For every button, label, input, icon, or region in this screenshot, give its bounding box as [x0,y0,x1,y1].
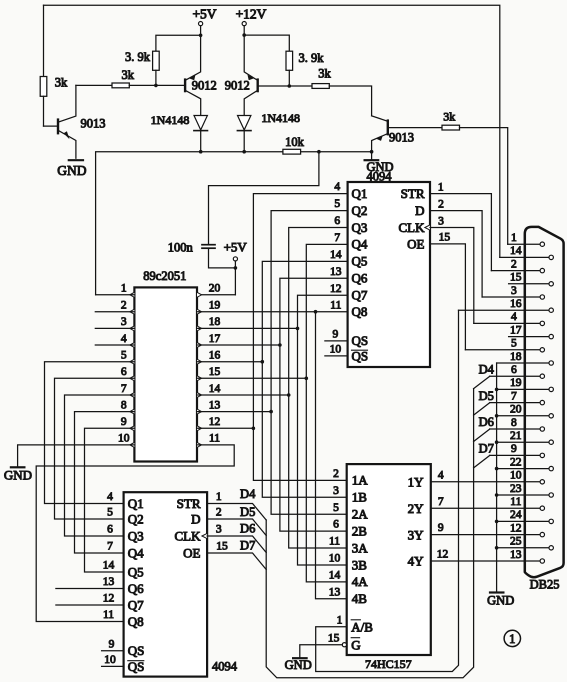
svg-text:OE: OE [407,236,424,251]
wire R5 to transistor Q4 base [329,86,371,116]
connector J1 pin 25 row [497,547,549,549]
svg-text:12: 12 [437,549,449,561]
wire U1 pin10 to ground [18,445,135,467]
wire U2 Q3 via channel to U4 3A [289,228,348,549]
svg-text:14: 14 [329,570,341,582]
svg-text:6: 6 [334,215,340,227]
svg-text:Q7: Q7 [352,288,368,303]
connector J1 pin 23 row [497,494,549,496]
wire R4 to node B [288,70,290,86]
svg-text:3k: 3k [121,68,134,82]
schematic figure number 1 (circled) [504,630,520,646]
svg-text:STR: STR [401,186,425,201]
U3 QS stub pin 9 [102,650,124,652]
bus tap D7 to DB25 pin 9 [474,455,490,468]
wire Q3 base to node B [258,85,290,87]
connector J1 pin 20 row [497,415,549,417]
svg-text:12: 12 [103,593,115,605]
ground (Q1 emitter) [69,159,83,161]
svg-text:17: 17 [209,333,221,345]
wire U1 pin18 to node (Q7 column) [197,327,298,329]
svg-text:9: 9 [438,522,444,534]
connector J1 DB25 shell [525,227,564,577]
U1 pin 4 (left) [130,343,135,348]
svg-text:4: 4 [334,181,340,193]
bus tap D4 to DB25 pin 6 [474,376,490,388]
svg-text:10: 10 [329,553,341,565]
transistor Q4 9013 (NPN, right) [372,116,388,122]
wire Q1 collector row to resistor 3k base [76,84,112,86]
svg-text:14: 14 [103,560,115,572]
wire U1 pin3 stub (open) [95,327,134,329]
U1 pin 1 (left) [130,292,135,297]
svg-text:14: 14 [510,245,522,257]
connector J1 pin 16 row [459,309,550,311]
svg-text:16: 16 [209,350,221,362]
resistor R4 3.9k (vertical) [286,51,293,70]
connector J1 pin 1 row [508,243,540,245]
svg-text:2Y: 2Y [408,501,425,516]
svg-text:10: 10 [104,654,116,666]
U1 pin 16 (right) [197,359,202,364]
svg-text:9: 9 [511,443,517,455]
svg-text:4B: 4B [352,591,368,606]
wire 10k-node down and left to capacitor [209,152,319,245]
svg-text:1: 1 [438,181,444,193]
svg-text:12: 12 [510,522,522,534]
svg-text:5: 5 [121,350,127,362]
svg-text:100n: 100n [168,241,194,255]
U1 pin 10 (left) [130,442,135,447]
connector J1 pin 24 row [497,520,549,522]
svg-text:Q2: Q2 [128,511,144,526]
wire reset bus (left section, to 89c2051 RST pin 1) [96,152,283,295]
svg-text:20: 20 [510,404,522,416]
svg-text:GND: GND [4,468,32,483]
svg-text:5: 5 [107,507,113,519]
svg-text:Q7: Q7 [128,597,144,612]
svg-text:4: 4 [511,311,517,323]
wire +5V rail to 3.9k branch [156,35,201,51]
svg-text:5: 5 [334,198,340,210]
svg-text:+5V: +5V [192,7,216,22]
svg-text:10: 10 [118,433,130,445]
capacitor C1 100n [202,244,215,246]
U2 QSbar stub pin 10 [325,355,348,357]
wire R6 to DB25 pin-1 column [460,128,508,245]
svg-text:+5V: +5V [224,239,248,254]
bus tap D5 to DB25 pin 7 [474,403,490,416]
svg-text:11: 11 [330,299,341,311]
wire U1 pin9 to U3 Q5 [85,428,135,572]
svg-text:9013: 9013 [81,116,106,130]
wire U1 pin12 to node (Q1 column) [197,427,253,429]
svg-text:3k: 3k [55,76,68,90]
svg-text:Q4: Q4 [352,237,368,252]
connector J1 pin 7 row [490,402,540,404]
svg-text:7: 7 [107,541,113,553]
diode D1 1N4148 [194,116,207,130]
op IC U4 74HC157 body [347,464,431,655]
svg-text:GND: GND [57,163,86,178]
svg-text:3A: 3A [352,540,369,555]
svg-text:GND: GND [285,658,312,672]
svg-text:2: 2 [333,468,339,480]
svg-text:13: 13 [209,399,221,411]
bus tap D6 to DB25 pin 8 [474,429,490,442]
svg-text:4Y: 4Y [408,554,425,569]
svg-text:20: 20 [209,283,221,295]
svg-text:6: 6 [511,364,517,376]
connector J1 pin 3 row [482,296,540,298]
wire U1 pin5 to U3 Q1 [45,362,135,504]
svg-text:3. 9k: 3. 9k [125,50,151,64]
svg-text:19: 19 [510,377,522,389]
wire U1 pin2 stub (open) [95,311,134,313]
connector J1 pin 8 row [490,428,540,430]
resistor R2 3k (horizontal, Q2 base) [112,83,129,88]
wire U2 Q8 via channel to U4 4B [316,312,348,599]
U1 pin 20 (right) [197,292,202,297]
svg-text:Q1: Q1 [352,186,368,201]
svg-text:1: 1 [121,283,127,295]
resistor R7 10k [283,149,301,154]
svg-text:9013: 9013 [389,131,414,145]
wire ground bus right section [301,151,372,153]
svg-text:15: 15 [510,272,522,284]
svg-text:Q5: Q5 [128,564,144,579]
svg-text:14: 14 [209,383,221,395]
svg-text:7: 7 [334,232,340,244]
svg-text:8: 8 [511,417,517,429]
connector J1 pin 2 row [491,270,540,272]
svg-text:Q8: Q8 [352,304,368,319]
U3 QSbar stub pin 10 [102,665,124,667]
svg-text:9: 9 [121,416,127,428]
svg-text:D5: D5 [479,389,494,403]
connector J1 pin 5 row [465,349,540,351]
U1 pin 9 (left) [130,426,135,431]
svg-text:13: 13 [330,266,342,278]
svg-text:9: 9 [333,329,339,341]
svg-text:GND: GND [487,593,514,607]
svg-text:24: 24 [510,509,522,521]
wire ground bus (DB25 pins 18-25) [496,363,498,592]
svg-text:15: 15 [439,232,451,244]
transistor Q1 9013 (NPN, left) [44,125,59,127]
svg-text:2B: 2B [352,523,368,538]
wire U2 Q4 via channel to U4 4A [306,244,347,582]
svg-text:Q1: Q1 [128,496,144,511]
svg-text:OE: OE [183,546,200,561]
connector J1 pin 15 row [509,283,549,285]
ground (U1 pin 10) [11,466,25,468]
wire U1 pin11 to U3 Q8 [36,445,234,622]
svg-text:9: 9 [109,638,115,650]
diode D2 1N4148 [238,116,251,130]
transistor Q2 9012 (PNP) [184,80,186,92]
wire U1 pin17 to node (Q6 column) [197,344,280,346]
svg-text:3: 3 [216,524,222,536]
svg-text:16: 16 [510,298,522,310]
resistor R5 3k (horizontal) [289,85,312,87]
svg-text:15: 15 [328,632,340,644]
svg-text:9012: 9012 [192,78,217,92]
svg-text:D4: D4 [479,362,495,376]
U1 pin 14 (right) [197,393,202,398]
U1 pin 15 (right) [197,376,202,381]
ground (bus right end, Q4 emitter) [365,159,379,161]
wire U1 pin4 stub (open) [95,344,134,346]
connector J1 pin 14 row [500,256,549,258]
connector J1 pin 4 row [474,322,540,324]
wire U1 pin1 RST from reset bus [96,294,135,296]
svg-text:6: 6 [333,519,339,531]
wire D1 cathode to reset bus [200,131,202,152]
node dot +5V rail split [199,34,203,38]
svg-text:22: 22 [510,456,522,468]
svg-text:QS: QS [352,333,369,348]
resistor R3 3.9k (vertical) [153,51,160,70]
connector J1 pin 21 row [497,441,549,443]
svg-text:+12V: +12V [236,7,267,22]
svg-text:15: 15 [216,541,228,553]
wire U1 pin6 to U3 Q2 [55,378,135,519]
svg-text:Q3: Q3 [352,220,368,235]
svg-text:25: 25 [510,536,522,548]
U1 pin 19 (right) [197,309,202,314]
ground (DB25 pin 25 group) [490,591,503,593]
transistor Q3 9012 (PNP, mirrored) [257,80,259,92]
svg-text:3k: 3k [443,110,455,124]
svg-text:5: 5 [511,338,517,350]
svg-text:STR: STR [177,496,201,511]
wire U1 pin13 to node (Q2 column) [197,411,271,413]
svg-text:CLK: CLK [175,529,202,544]
wire from R1 down to transistor Q1 base [43,96,45,126]
U1 pin 17 (right) [197,343,202,348]
svg-text:DB25: DB25 [530,577,560,591]
svg-text:D4: D4 [240,487,256,501]
wire +12V rail to 3.9k branch [244,35,289,51]
U2 QS stub pin 9 [325,340,348,342]
svg-text:3Y: 3Y [408,527,425,542]
op IC U1 89c2051 body [134,287,197,461]
svg-text:1: 1 [216,491,222,503]
svg-text:Q3: Q3 [128,528,144,543]
svg-text:4: 4 [121,333,127,345]
svg-text:D: D [191,512,200,527]
svg-text:1B: 1B [352,490,368,505]
svg-text:4: 4 [107,491,113,503]
svg-text:4: 4 [438,469,444,481]
node dot VCC [234,266,238,270]
U1 pin 7 (left) [130,393,135,398]
svg-text:4094: 4094 [367,170,393,184]
svg-text:Q2: Q2 [352,203,368,218]
U1 pin 12 (right) [197,426,202,431]
svg-text:21: 21 [510,430,522,442]
wire U2 Q5 via channel to U4 1B [262,261,347,497]
svg-text:1: 1 [337,615,343,627]
svg-text:4094: 4094 [212,660,238,674]
connector J1 pin 17 row [509,336,549,338]
svg-text:18: 18 [209,316,221,328]
wire U1 pin7 to U3 Q3 [65,395,135,536]
svg-text:10: 10 [510,470,522,482]
op IC U2 4094 (upper) body [348,182,430,367]
U1 pin 2 (left) [130,309,135,314]
resistor R1 3k (vertical, left edge) [40,77,47,97]
svg-text:3: 3 [333,485,339,497]
svg-text:2: 2 [511,258,517,270]
wire U2 Q6 via channel to U4 2B [280,278,348,531]
svg-text:11: 11 [103,609,114,621]
svg-text:12: 12 [209,416,221,428]
wire U2 Q1 via channel to U4 1A [253,194,347,481]
svg-text:89c2051: 89c2051 [143,269,186,283]
svg-text:2: 2 [121,300,127,312]
svg-text:1N4148: 1N4148 [261,111,300,125]
svg-text:CLK: CLK [399,220,426,235]
connector J1 pin 18 row [497,362,549,364]
svg-text:14: 14 [330,249,342,261]
svg-text:7: 7 [511,390,517,402]
svg-text:6: 6 [121,366,127,378]
svg-text:13: 13 [329,586,341,598]
svg-text:D7: D7 [240,539,255,553]
wire VCC to 89c2051 pin 20 [197,294,235,296]
svg-text:12: 12 [330,283,342,295]
svg-text:3: 3 [511,285,517,297]
svg-text:Q4: Q4 [128,545,144,560]
wire C1 bottom plate to +5V node [209,248,236,268]
svg-text:1N4148: 1N4148 [151,113,190,127]
svg-text:A/B: A/B [351,619,373,634]
wire D2 cathode to reset bus [243,131,245,152]
wire U1 pin14 to node (Q3 column) [197,394,289,396]
connector J1 pin 6 row [490,375,540,377]
ground (U4 G pin) [293,657,307,659]
wire U1 pin19 to node (Q8 column) [197,311,316,313]
svg-text:3B: 3B [352,557,368,572]
wire left vertical from top rail to resistor 3k [43,5,45,76]
svg-text:Q5: Q5 [352,254,368,269]
wire R3 to node A [155,70,157,85]
svg-text:8: 8 [121,399,127,411]
connector J1 pin 22 row [497,468,549,470]
svg-text:Q6: Q6 [352,271,368,286]
svg-text:1Y: 1Y [408,475,425,490]
bus D4-D7 main loop (left vertical, bottom run, right vertical) [266,389,473,678]
U3 Q6 stub (open) [56,588,124,590]
wire U1 pin16 to node (Q5 column) [197,361,262,363]
node B junction dot [288,84,292,88]
svg-text:Q8: Q8 [128,614,144,629]
wire U1 pin15 to node (Q4 column) [197,377,306,379]
node dot +12V rail split [242,33,246,37]
U1 pin 3 (left) [130,326,135,331]
junction dots on buses [199,150,203,154]
svg-text:13: 13 [103,576,115,588]
svg-text:11: 11 [329,536,340,548]
wire U2 Q7 via channel to U4 3B [298,295,348,565]
svg-text:3: 3 [121,316,127,328]
svg-text:D7: D7 [479,442,494,456]
wire U2 Q2 via channel to U4 2A [271,211,348,515]
svg-text:19: 19 [209,300,221,312]
svg-text:7: 7 [121,383,127,395]
svg-text:74HC157: 74HC157 [365,657,412,671]
svg-text:3. 9k: 3. 9k [299,51,325,65]
svg-text:4A: 4A [352,574,369,589]
svg-text:17: 17 [510,324,522,336]
svg-text:1A: 1A [352,473,369,488]
node A junction dot [154,84,158,88]
svg-text:23: 23 [510,483,522,495]
svg-text:5: 5 [333,502,339,514]
svg-text:QS: QS [128,643,145,658]
wire top rail from left 3k down-corner to DB25 pin-14 column [44,5,500,257]
wire U1 pin8 to U3 Q4 [75,412,135,553]
U3 Q7 stub (open) [56,604,124,606]
svg-text:G: G [351,637,360,652]
svg-text:18: 18 [510,351,522,363]
svg-text:11: 11 [510,496,521,508]
svg-text:3k: 3k [318,67,331,81]
U1 pin 13 (right) [197,409,202,414]
svg-text:3: 3 [438,215,444,227]
wire Q4 collector to resistor 3k [388,127,442,129]
svg-text:D6: D6 [240,522,255,536]
U1 pin 11 (right) [197,442,202,447]
svg-text:2: 2 [438,198,444,210]
svg-text:D: D [415,203,424,218]
resistor R6 3k (horizontal, collector) [442,125,460,130]
svg-text:15: 15 [209,366,221,378]
svg-text:2: 2 [216,507,222,519]
connector J1 pin 9 row [490,454,540,456]
svg-text:6: 6 [107,524,113,536]
wire R2 to node A (3.9k bottom / Q2 base) [129,84,185,86]
op IC U3 4094 (lower) body [124,492,208,676]
svg-text:Q6: Q6 [128,581,144,596]
U1 pin 5 (left) [130,359,135,364]
svg-text:1: 1 [511,232,517,244]
svg-text:11: 11 [209,433,220,445]
svg-text:13: 13 [510,549,522,561]
svg-text:7: 7 [438,496,444,508]
U1 pin 8 (left) [130,409,135,414]
svg-text:D6: D6 [479,415,494,429]
svg-text:10: 10 [330,344,342,356]
connector J1 pin 19 row [497,388,549,390]
svg-text:10k: 10k [285,135,305,149]
svg-text:2A: 2A [352,507,369,522]
svg-text:1: 1 [509,632,515,646]
U1 pin 6 (left) [130,376,135,381]
U1 pin 18 (right) [197,326,202,331]
svg-text:9012: 9012 [225,78,250,92]
svg-text:D5: D5 [240,505,255,519]
